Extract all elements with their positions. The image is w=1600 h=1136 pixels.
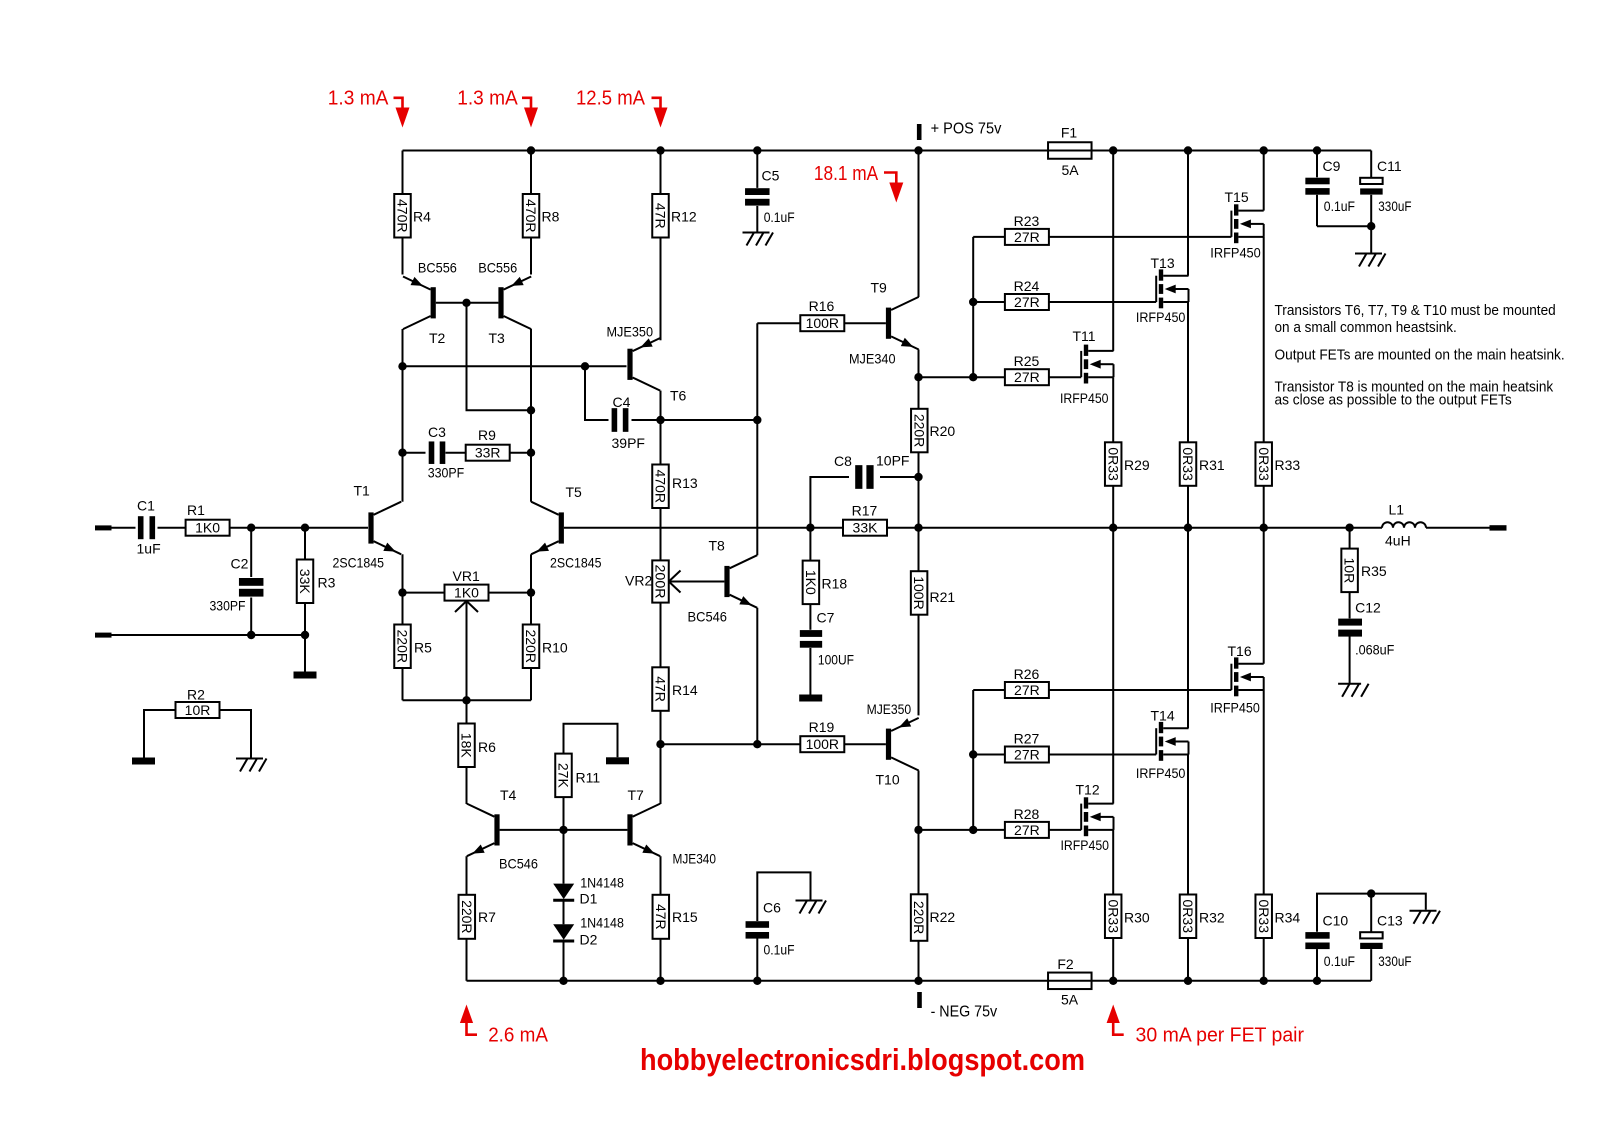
resistor R34: [1255, 895, 1300, 939]
svg-text:47R: 47R: [653, 203, 669, 229]
svg-text:27R: 27R: [1014, 822, 1040, 838]
svg-text:VR2: VR2: [625, 573, 652, 589]
svg-text:0.1uF: 0.1uF: [1324, 198, 1355, 214]
wire T1 emitter down: [402, 554, 404, 624]
wire T4 emitter down: [466, 856, 468, 895]
svg-text:T15: T15: [1225, 189, 1249, 205]
ground under C7: [799, 695, 822, 702]
svg-text:R15: R15: [672, 909, 698, 925]
wire R27 to T14 gate: [1049, 754, 1156, 756]
svg-text:D2: D2: [580, 932, 598, 948]
svg-text:T16: T16: [1228, 643, 1252, 659]
node output rail junctions: [1109, 524, 1354, 532]
node R17 right: [914, 524, 922, 532]
wire R17 to FET columns: [887, 527, 1349, 529]
wire R11 to base link: [563, 797, 565, 830]
wire T11 drain to rail: [1112, 151, 1114, 351]
transistor T10: [867, 701, 919, 788]
annotation 1.3 mA (R4): [328, 87, 410, 128]
svg-text:as close as possible to the ou: as close as possible to the output FETs: [1275, 393, 1512, 409]
wire R1 to T1 base: [230, 527, 369, 529]
wire R32 to rail: [1187, 938, 1189, 981]
svg-text:R28: R28: [1014, 806, 1040, 822]
transistor T4: [467, 787, 538, 872]
wire R29 to out rail: [1112, 486, 1114, 528]
svg-text:T9: T9: [871, 280, 888, 296]
wire T8 emitter down: [756, 608, 758, 744]
resistor R19: [800, 719, 844, 752]
wire R2 right to ground: [220, 710, 252, 758]
node C13 top: [1367, 889, 1375, 897]
capacitor C1: [137, 498, 161, 557]
svg-text:Output FETs are mounted on the: Output FETs are mounted on the main heat…: [1275, 348, 1565, 364]
svg-text:R34: R34: [1275, 910, 1301, 926]
resistor R31: [1180, 442, 1225, 486]
wire rail to L1: [1350, 527, 1382, 529]
svg-text:R10: R10: [542, 640, 568, 656]
wire C1 to R1: [158, 527, 186, 529]
capacitor C2: [210, 528, 264, 635]
svg-text:1N4148: 1N4148: [580, 875, 624, 891]
svg-text:2SC1845: 2SC1845: [550, 555, 602, 571]
svg-text:1K0: 1K0: [803, 570, 819, 595]
svg-text:R18: R18: [822, 576, 848, 592]
capacitor C3: [403, 424, 466, 481]
wire R21 to T10: [918, 615, 920, 716]
svg-text:0R33: 0R33: [1256, 447, 1272, 481]
svg-text:T12: T12: [1076, 782, 1100, 798]
resistor R16: [757, 298, 844, 331]
mosfet T12: [1061, 782, 1114, 853]
resistor R1: [186, 502, 230, 536]
svg-text:R29: R29: [1124, 457, 1150, 473]
wire T10 collector down: [918, 771, 920, 895]
transistor T3: [478, 260, 531, 347]
wire T5 collector up: [530, 329, 532, 502]
node VR1 wiper bottom: [462, 696, 470, 704]
svg-text:BC556: BC556: [418, 260, 457, 276]
pot VR1: [445, 568, 489, 700]
wire R25 to T11 gate: [1049, 376, 1081, 378]
wire T7 collector up: [660, 744, 662, 804]
capacitor C12: [1338, 592, 1394, 684]
resistor R32: [1180, 895, 1225, 939]
wire T2-T3 base link: [436, 302, 499, 304]
resistor R30: [1105, 895, 1150, 939]
wire R34 to rail: [1263, 938, 1265, 981]
node T7 collector top: [656, 740, 664, 748]
wire R30 to rail: [1112, 938, 1114, 981]
wire T2 collector node to T6 base: [403, 365, 627, 367]
resistor R27: [973, 731, 1049, 763]
svg-text:R19: R19: [809, 719, 835, 735]
svg-text:R2: R2: [187, 687, 205, 703]
node C3 left: [398, 449, 406, 457]
wire R9 to node: [510, 452, 531, 454]
resistor R8: [523, 151, 560, 275]
svg-text:100R: 100R: [806, 736, 839, 752]
resistor R28: [1005, 806, 1049, 838]
capacitor C5: [745, 151, 795, 232]
node T8 collector line: [753, 416, 761, 424]
node T2 coll / T6 base wire: [398, 362, 406, 370]
svg-text:0R33: 0R33: [1256, 900, 1272, 934]
svg-text:0.1uF: 0.1uF: [1324, 953, 1355, 969]
wire R15 to rail: [660, 939, 662, 981]
svg-text:IRFP450: IRFP450: [1210, 700, 1260, 716]
resistor R6: [458, 700, 496, 767]
svg-text:10R: 10R: [1342, 558, 1358, 584]
svg-text:R20: R20: [930, 423, 956, 439]
svg-text:330PF: 330PF: [210, 598, 246, 614]
wire R16 to T9 base: [844, 322, 886, 324]
svg-text:C3: C3: [428, 424, 446, 440]
svg-text:27R: 27R: [1014, 682, 1040, 698]
svg-text:5A: 5A: [1061, 162, 1079, 178]
svg-text:IRFP450: IRFP450: [1210, 244, 1261, 260]
svg-text:C13: C13: [1377, 913, 1403, 929]
svg-text:0.1uF: 0.1uF: [764, 942, 795, 958]
svg-text:R26: R26: [1014, 666, 1040, 682]
ground left of R2: [132, 758, 155, 765]
resistor R24: [973, 278, 1049, 310]
svg-text:100UF: 100UF: [818, 652, 854, 668]
wire T8 base to VR2 wiper: [670, 581, 725, 583]
svg-text:1N4148: 1N4148: [580, 915, 624, 931]
wire D2 to rail: [563, 941, 565, 981]
wire T15 drain to rail: [1263, 151, 1265, 211]
transistor T7: [627, 787, 716, 867]
wire T9 emitter down: [918, 350, 920, 409]
wire R23 bus vertical: [972, 237, 974, 377]
wire input to C1: [111, 527, 136, 529]
capacitor C11: [1317, 151, 1412, 254]
svg-text:C6: C6: [763, 900, 781, 916]
svg-text:T13: T13: [1151, 255, 1175, 271]
svg-text:R6: R6: [478, 739, 496, 755]
svg-text:T10: T10: [876, 772, 900, 788]
wire base node down: [467, 303, 532, 411]
svg-text:1uF: 1uF: [137, 541, 161, 557]
svg-text:1.3 mA: 1.3 mA: [328, 87, 389, 110]
wire R28 to T12 gate: [1049, 829, 1081, 831]
transistor T6: [607, 324, 687, 404]
svg-text:C10: C10: [1323, 913, 1349, 929]
svg-text:R1: R1: [187, 502, 205, 518]
wire T9 emitter to R25: [919, 376, 1006, 378]
svg-text:1K0: 1K0: [454, 585, 479, 601]
annotation 30 mA per FET pair: [1107, 1005, 1305, 1047]
capacitor C7: [800, 604, 854, 694]
node lower junctions: [247, 631, 309, 639]
svg-text:470R: 470R: [653, 470, 669, 503]
svg-text:12.5 mA: 12.5 mA: [576, 87, 645, 110]
svg-text:18K: 18K: [459, 733, 475, 759]
resistor R18: [803, 528, 848, 604]
svg-text:0R33: 0R33: [1105, 447, 1121, 481]
svg-text:T8: T8: [709, 538, 726, 554]
resistor R35: [1341, 528, 1387, 592]
wire T6 collector down: [660, 391, 662, 465]
svg-text:0R33: 0R33: [1180, 447, 1196, 481]
mosfet T13: [1136, 255, 1189, 325]
wire C9 bottom join: [1317, 225, 1371, 227]
svg-text:5A: 5A: [1061, 992, 1079, 1008]
wire T12 source to R30: [1112, 830, 1114, 895]
svg-text:D1: D1: [580, 891, 598, 907]
transistor T9: [849, 280, 919, 367]
wire C4 node to T8 col line: [661, 419, 758, 421]
resistor R23: [973, 213, 1049, 245]
svg-text:33K: 33K: [853, 520, 879, 536]
svg-text:1K0: 1K0: [195, 520, 220, 536]
svg-text:R3: R3: [318, 575, 336, 591]
transistor T5: [531, 484, 602, 571]
svg-text:470R: 470R: [523, 199, 539, 232]
ground right of C6 hook: [796, 901, 827, 914]
svg-text:R17: R17: [852, 503, 878, 519]
mosfet T11: [1060, 328, 1114, 406]
wire R26 bus vertical: [972, 690, 974, 830]
wire T7 node to R19: [661, 743, 801, 745]
wire T13 source to R31: [1187, 302, 1189, 442]
svg-text:R31: R31: [1199, 457, 1225, 473]
wire R22 to bottom rail: [918, 941, 920, 981]
pot VR2: [625, 560, 681, 602]
node T5 emitter: [527, 588, 535, 596]
wire C13 top stub: [1370, 894, 1372, 932]
resistor R29: [1105, 442, 1150, 486]
resistor R9: [466, 427, 510, 461]
mosfet T16: [1210, 643, 1263, 716]
svg-text:C9: C9: [1323, 158, 1341, 174]
wire lower input: [111, 634, 305, 636]
svg-text:330uF: 330uF: [1378, 953, 1411, 969]
wire T10 col to R28: [919, 829, 1006, 831]
wire T1 collector up: [402, 453, 404, 502]
fuse F2: [1048, 956, 1092, 1008]
fuse F1: [1048, 125, 1092, 179]
node bottom rail junctions: [559, 977, 1321, 985]
svg-text:C1: C1: [137, 498, 155, 514]
wire T4-T7 base link: [500, 829, 628, 831]
svg-text:MJE350: MJE350: [867, 701, 912, 717]
capacitor C13: [1360, 913, 1411, 981]
resistor R14: [652, 667, 698, 711]
transistor T1: [333, 483, 402, 571]
note transistor mounting: [1275, 303, 1556, 336]
svg-text:R23: R23: [1014, 213, 1040, 229]
capacitor C4: [585, 366, 661, 451]
svg-text:33R: 33R: [475, 445, 501, 461]
wire R24 to T13 gate: [1049, 301, 1156, 303]
svg-text:0R33: 0R33: [1105, 900, 1121, 934]
svg-text:330uF: 330uF: [1378, 198, 1411, 214]
resistor R2: [176, 687, 220, 719]
annotation 18.1 mA (T9): [814, 162, 903, 203]
power terminal - NEG 75v: [917, 992, 997, 1021]
power terminal + POS 75v: [917, 121, 1002, 141]
svg-text:R7: R7: [478, 909, 496, 925]
node C9/C11 join: [1367, 222, 1375, 230]
ground under R3: [294, 672, 317, 679]
svg-text:220R: 220R: [395, 630, 411, 663]
svg-text:BC556: BC556: [478, 260, 517, 276]
transistor T2: [403, 260, 457, 347]
wire R14 to T7 node: [660, 711, 662, 744]
resistor R26: [973, 666, 1049, 698]
resistor R17: [843, 503, 887, 536]
wire R33 to out rail: [1263, 486, 1265, 528]
resistor R4: [394, 151, 431, 275]
svg-text:18.1 mA: 18.1 mA: [814, 162, 879, 185]
wire C10/C13 top hook: [1317, 894, 1426, 932]
node bus R25: [969, 373, 977, 381]
wire R5 R10 bottoms joined: [403, 668, 532, 700]
wire L1 to output: [1426, 527, 1490, 529]
svg-text:C12: C12: [1355, 600, 1381, 616]
svg-text:100R: 100R: [806, 315, 839, 331]
svg-text:C7: C7: [817, 610, 835, 626]
svg-text:.068uF: .068uF: [1355, 642, 1394, 658]
svg-text:R27: R27: [1014, 731, 1040, 747]
svg-text:BC546: BC546: [499, 856, 538, 872]
svg-text:220R: 220R: [459, 900, 475, 933]
output terminal stub: [1490, 525, 1507, 530]
ground right of R2: [236, 759, 267, 772]
svg-text:hobbyelectronicsdri.blogspot.c: hobbyelectronicsdri.blogspot.com: [640, 1043, 1085, 1077]
svg-text:R12: R12: [671, 209, 697, 225]
svg-text:R4: R4: [413, 209, 431, 225]
svg-text:T5: T5: [566, 484, 583, 500]
svg-text:IRFP450: IRFP450: [1136, 309, 1186, 325]
node bus R28: [969, 826, 977, 834]
resistor R33: [1255, 442, 1300, 486]
annotation 12.5 mA (R12): [576, 87, 668, 128]
mosfet T15: [1210, 189, 1263, 260]
svg-text:R14: R14: [672, 682, 698, 698]
wire T7 emitter down: [660, 856, 662, 895]
ground right of C13: [1410, 911, 1441, 924]
site watermark: [640, 1043, 1085, 1077]
svg-text:R24: R24: [1014, 278, 1040, 294]
svg-text:MJE340: MJE340: [673, 851, 717, 867]
wire top +75V rail: [403, 150, 1372, 152]
svg-text:470R: 470R: [395, 199, 411, 232]
ground under C5: [743, 233, 774, 246]
svg-text:R30: R30: [1124, 910, 1150, 926]
wire R31 to out rail: [1187, 486, 1189, 528]
capacitor C9: [1305, 151, 1355, 227]
resistor R13: [652, 465, 698, 509]
junction dots on +75V rail: [527, 146, 1321, 154]
svg-text:R35: R35: [1361, 563, 1387, 579]
input terminal stub: [95, 525, 112, 530]
note output FETs: [1275, 348, 1565, 364]
node input junctions: [247, 524, 309, 532]
svg-text:F1: F1: [1061, 125, 1078, 141]
svg-text:30 mA per FET pair: 30 mA per FET pair: [1136, 1024, 1305, 1047]
svg-text:L1: L1: [1389, 502, 1405, 518]
annotation 2.6 mA: [460, 1005, 548, 1047]
svg-text:BC546: BC546: [688, 609, 728, 625]
node bus R27: [969, 750, 977, 758]
svg-text:R21: R21: [930, 589, 956, 605]
svg-text:R9: R9: [478, 427, 496, 443]
wire T5 base to R17: [564, 527, 843, 529]
svg-text:IRFP450: IRFP450: [1061, 837, 1110, 853]
resistor R11: [555, 724, 617, 797]
node T2/T3 base: [462, 299, 470, 307]
svg-text:10PF: 10PF: [876, 453, 909, 469]
capacitor C10: [1305, 913, 1355, 981]
svg-text:R25: R25: [1014, 353, 1040, 369]
ground right of R11: [606, 757, 629, 764]
svg-text:C11: C11: [1377, 158, 1402, 174]
svg-text:27R: 27R: [1014, 747, 1040, 763]
resistor R5: [394, 625, 432, 669]
node R9 right: [527, 449, 535, 457]
wire T16 source to R34: [1263, 690, 1265, 895]
ground under C11: [1355, 254, 1386, 267]
node R17 left: [806, 524, 814, 532]
svg-text:on a small common heastsink.: on a small common heastsink.: [1275, 320, 1457, 336]
svg-text:220R: 220R: [523, 630, 539, 663]
capacitor C6: [746, 872, 811, 980]
wire T14 drain to out rail: [1187, 528, 1189, 729]
wire R2 left to ground: [144, 710, 176, 758]
svg-text:C8: C8: [834, 453, 852, 469]
svg-text:F2: F2: [1057, 956, 1074, 972]
svg-text:330PF: 330PF: [428, 465, 465, 481]
svg-text:MJE350: MJE350: [607, 324, 654, 340]
svg-text:27R: 27R: [1014, 229, 1040, 245]
svg-text:R16: R16: [809, 298, 835, 314]
svg-text:C2: C2: [231, 556, 249, 572]
svg-text:T7: T7: [628, 787, 645, 803]
wire VR2 to R14: [660, 603, 662, 668]
diode D1: [553, 830, 624, 907]
resistor R12: [652, 151, 697, 341]
svg-text:2.6 mA: 2.6 mA: [488, 1024, 548, 1047]
svg-text:IRFP450: IRFP450: [1060, 390, 1109, 406]
node T9 emitter row: [914, 373, 922, 381]
svg-text:200R: 200R: [652, 565, 668, 599]
svg-text:27K: 27K: [556, 763, 572, 789]
svg-text:MJE340: MJE340: [849, 351, 896, 367]
svg-text:2SC1845: 2SC1845: [333, 555, 385, 571]
svg-text:47R: 47R: [653, 904, 669, 930]
resistor R22: [911, 894, 956, 941]
node on T3 collector line: [527, 406, 535, 414]
svg-text:33K: 33K: [297, 569, 313, 595]
wire T5 emitter down: [530, 554, 532, 624]
svg-text:0R33: 0R33: [1180, 900, 1196, 934]
wire T15 source to R33: [1263, 237, 1265, 442]
svg-text:R11: R11: [576, 770, 601, 786]
ground under C12: [1338, 684, 1369, 697]
wire R23 to T15 gate: [1049, 236, 1232, 238]
node C8 right: [914, 473, 922, 481]
svg-text:27R: 27R: [1014, 294, 1040, 310]
note T8 mounting: [1275, 379, 1554, 408]
wire VR1 left: [403, 592, 445, 594]
svg-text:47R: 47R: [653, 676, 669, 702]
node T8 emitter bottom: [753, 740, 761, 748]
svg-text:4uH: 4uH: [1385, 533, 1411, 549]
svg-text:T4: T4: [500, 787, 517, 803]
wire T16 drain to out rail: [1263, 528, 1265, 664]
